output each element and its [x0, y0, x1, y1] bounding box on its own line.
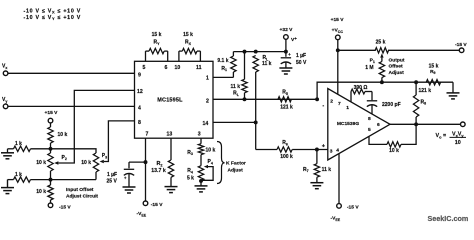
resistor RY 15k pins 5-6	[146, 32, 168, 61]
svg-text:1: 1	[346, 105, 349, 111]
op-amp pin 1 label	[346, 105, 349, 111]
terminal +32V	[280, 27, 298, 43]
pin 7 label	[146, 132, 149, 138]
resistor R8 121k	[413, 82, 431, 124]
svg-text:K Factor: K Factor	[226, 161, 246, 167]
svg-text:10 k: 10 k	[58, 132, 68, 138]
svg-text:121 k: 121 k	[419, 88, 432, 94]
resistor R3 10k on pin 3	[187, 138, 215, 156]
svg-text:VxVy: VxVy	[452, 131, 464, 137]
ground G3 for cap	[123, 187, 136, 193]
junction R8 top	[414, 80, 418, 84]
op-amp pin 4 label	[336, 147, 339, 153]
watermark	[428, 214, 469, 223]
svg-text:2200 pF: 2200 pF	[382, 102, 401, 108]
svg-text:10 k: 10 k	[36, 189, 46, 195]
svg-text:1 k: 1 k	[15, 141, 22, 147]
svg-text:15 k: 15 k	[183, 32, 193, 38]
svg-text:Adjust: Adjust	[389, 70, 405, 76]
ground G2	[1, 188, 14, 194]
svg-text:SeekIC.com: SeekIC.com	[428, 214, 469, 223]
svg-text:10: 10	[455, 140, 461, 146]
resistor R5 121k	[278, 90, 293, 111]
feedback line	[317, 82, 453, 99]
resistor R4 5k	[187, 166, 204, 186]
capacitor 2200pF	[367, 92, 401, 114]
resistor RL 11k to pin 14	[253, 55, 272, 149]
junction 1M bottom	[380, 80, 384, 84]
svg-text:-15 V: -15 V	[347, 204, 359, 210]
svg-text:8: 8	[138, 120, 141, 126]
resistor 1M	[365, 62, 384, 83]
resistor R7 11k to ground	[303, 150, 331, 183]
ground G4 for R2	[165, 187, 178, 193]
junction pin2 feedback	[315, 97, 319, 101]
resistor 390ohm	[351, 85, 372, 94]
svg-text:9.1 k: 9.1 k	[217, 58, 228, 64]
junction R6 R7	[315, 148, 319, 152]
svg-text:-15 V: -15 V	[151, 202, 163, 208]
wire +32V to rail	[285, 39, 287, 51]
terminal -VEE -15V	[137, 201, 164, 217]
svg-text:3: 3	[330, 148, 333, 154]
junction rail +32V	[284, 50, 288, 54]
svg-text:15 k: 15 k	[152, 32, 162, 38]
wire Vy to pin 4	[8, 105, 135, 107]
svg-text:50 V: 50 V	[296, 60, 307, 66]
svg-text:-15 V: -15 V	[455, 42, 467, 48]
pin 13 label	[167, 132, 173, 138]
svg-text:Offset: Offset	[389, 64, 404, 70]
operating range text	[24, 9, 81, 21]
svg-text:+15 V: +15 V	[331, 17, 345, 23]
resistor 1k upper with ground	[8, 141, 51, 153]
input terminal Vx	[2, 64, 8, 76]
potentiometer P3 10k	[81, 153, 107, 180]
ground G1	[1, 153, 14, 159]
svg-text:-: -	[322, 103, 324, 109]
output formula	[436, 131, 467, 145]
svg-text:390 Ω: 390 Ω	[354, 85, 368, 91]
pin 9 label	[138, 73, 141, 79]
ground G8 for R9	[447, 82, 460, 99]
wire +VCC to op-amp pin 7	[337, 40, 339, 95]
svg-text:-10 V ≤ VY ≤ +10 V: -10 V ≤ VY ≤ +10 V	[24, 15, 81, 21]
op-amp pin 5 label	[368, 127, 371, 133]
terminal +VCC +15V	[331, 17, 345, 40]
pin 2 label	[206, 98, 209, 104]
potentiometer P4 wiper loop	[201, 159, 213, 180]
pin 11 label	[196, 65, 202, 71]
svg-text:8: 8	[368, 116, 371, 122]
op-amp pin1 stub	[350, 92, 352, 102]
svg-text:2: 2	[206, 98, 209, 104]
terminal -15V op-amp	[331, 204, 360, 222]
svg-text:11: 11	[196, 65, 202, 71]
op-amp U2 MC1539G	[328, 89, 390, 161]
junction pin7/cap	[144, 160, 148, 164]
terminal +15V left	[45, 110, 59, 123]
svg-text:10: 10	[175, 65, 181, 71]
pin 5 label	[143, 65, 146, 71]
capacitor 1uF 50V	[281, 52, 307, 68]
svg-text:V⁺: V⁺	[291, 37, 297, 43]
svg-text:1 µF: 1 µF	[107, 172, 117, 178]
terminal -15V left	[48, 203, 71, 210]
junction output	[414, 122, 418, 126]
feedback 10k loop	[369, 124, 416, 154]
op-amp pin 6 label	[377, 122, 380, 128]
capacitor 1uF 25V	[107, 162, 146, 187]
svg-text:10 k: 10 k	[81, 160, 91, 166]
svg-text:5: 5	[368, 127, 371, 133]
svg-text:4: 4	[336, 147, 339, 153]
svg-text:10 k: 10 k	[206, 147, 216, 153]
wire pin 14	[213, 121, 256, 123]
resistor 1k lower with ground	[8, 172, 51, 187]
svg-text:13.7 k: 13.7 k	[151, 168, 166, 174]
P1 supply line	[338, 49, 460, 51]
rail junction 1	[243, 50, 247, 54]
junction VCC P1 line	[336, 48, 340, 52]
svg-text:15 k: 15 k	[429, 63, 439, 69]
+32V supply rail	[233, 51, 286, 53]
svg-text:+: +	[322, 144, 325, 150]
svg-text:25 V: 25 V	[107, 179, 118, 185]
node B junction	[49, 178, 53, 182]
svg-text:2: 2	[330, 99, 333, 105]
resistor R9 15k	[426, 63, 440, 85]
svg-text:10 k: 10 k	[36, 160, 46, 166]
ground G5 for R4	[195, 186, 208, 192]
svg-text:+15 V: +15 V	[45, 110, 59, 116]
svg-text:MC1595L: MC1595L	[157, 98, 183, 104]
svg-text:13: 13	[167, 132, 173, 138]
resistor RX 15k pins 10-11	[179, 32, 201, 61]
terminal Vo	[461, 122, 466, 127]
svg-text:Adjust Circuit: Adjust Circuit	[66, 194, 98, 200]
svg-text:11 k: 11 k	[262, 61, 272, 67]
svg-text:11 k: 11 k	[322, 167, 332, 173]
svg-text:121 k: 121 k	[280, 105, 293, 111]
ground G6 for cap	[279, 68, 292, 74]
svg-text:Adjust: Adjust	[228, 167, 244, 173]
pin 4 label	[138, 105, 141, 111]
resistor 10k bottom of chain	[36, 180, 53, 204]
pin 3 label	[198, 132, 201, 138]
svg-text:25 k: 25 k	[376, 39, 386, 45]
svg-text:+32 V: +32 V	[280, 27, 294, 33]
svg-text:7: 7	[146, 132, 149, 138]
junction RL pin2	[243, 97, 247, 101]
op-amp minus sign	[322, 103, 324, 109]
resistor RL 11k to pin 2	[231, 52, 248, 100]
input offset adjust caption	[66, 187, 98, 200]
svg-text:1: 1	[206, 76, 209, 82]
svg-text:14: 14	[203, 121, 209, 127]
potentiometer P1 25k	[370, 39, 389, 63]
svg-text:Input Offset: Input Offset	[66, 187, 94, 193]
svg-text:7: 7	[338, 101, 341, 107]
wire P3 bottom to node B	[51, 179, 97, 181]
svg-text:12: 12	[137, 89, 143, 95]
wire op-amp pin 4 to -15V	[338, 154, 340, 204]
pin 12 label	[137, 89, 143, 95]
wire pin 7 to -VEE	[145, 138, 147, 201]
pin 14 label	[203, 121, 209, 127]
svg-text:3: 3	[198, 132, 201, 138]
svg-text:100 k: 100 k	[280, 154, 293, 160]
svg-text:1 M: 1 M	[365, 65, 373, 71]
svg-text:5: 5	[143, 65, 146, 71]
wire pin 1 to R1	[213, 76, 233, 78]
terminal -15V right	[455, 42, 467, 53]
svg-text:4: 4	[138, 105, 141, 111]
K factor brace	[217, 142, 225, 184]
wire R3 to R4	[200, 155, 202, 166]
svg-text:10 k: 10 k	[389, 148, 399, 154]
svg-text:6: 6	[165, 65, 168, 71]
output offset caption	[389, 58, 405, 76]
input terminal Vy	[2, 97, 8, 109]
svg-text:-10 V ≤ VX ≤ +10 V: -10 V ≤ VX ≤ +10 V	[24, 9, 81, 15]
svg-text:MC1539G: MC1539G	[337, 121, 359, 127]
svg-text:-15 V: -15 V	[59, 204, 71, 210]
wire pin 8 to P3 wiper	[100, 121, 135, 163]
wire RL column to R6	[256, 149, 277, 151]
op-amp pin 3 label	[330, 148, 333, 154]
svg-text:5 k: 5 k	[187, 175, 194, 181]
svg-text:Vo =: Vo =	[436, 133, 447, 139]
op-amp pin 2 label	[330, 99, 333, 105]
pin 6 label	[165, 65, 168, 71]
svg-text:11 k: 11 k	[231, 84, 241, 90]
resistor R2 13.7k on pin 13	[151, 138, 173, 186]
svg-text:Output: Output	[389, 58, 405, 64]
op-amp plus sign	[322, 144, 325, 150]
pin 10 label	[175, 65, 181, 71]
rail junction 2	[254, 50, 258, 54]
svg-text:6: 6	[377, 122, 380, 128]
K factor caption	[226, 161, 246, 174]
resistor R6 100k	[277, 140, 328, 160]
op-amp output line	[390, 123, 461, 125]
node A junction	[49, 147, 53, 151]
multiplier U1 MC1595L	[135, 61, 214, 138]
svg-text:1 k: 1 k	[15, 172, 22, 178]
wire Vx to pin 9	[8, 72, 135, 74]
svg-text:9: 9	[138, 73, 141, 79]
junction R4 bottom	[199, 179, 203, 183]
wire pin 12 to P2 wiper	[54, 90, 134, 164]
op-amp pin 8 label	[368, 116, 371, 122]
op-amp pin 7 label	[338, 101, 341, 107]
ground G7 for R7	[310, 183, 323, 189]
pin 8 label	[138, 120, 141, 126]
resistor R1 9.1k	[217, 52, 236, 78]
potentiometer P2 10k	[36, 149, 67, 180]
junction RL pin14	[254, 120, 258, 124]
pin 1 label	[206, 76, 209, 82]
resistor 10k top of chain	[48, 123, 68, 149]
svg-text:1 µF: 1 µF	[296, 53, 306, 59]
wire node A to P3 top	[51, 149, 97, 153]
wire pin 2 to op-amp	[213, 98, 317, 100]
